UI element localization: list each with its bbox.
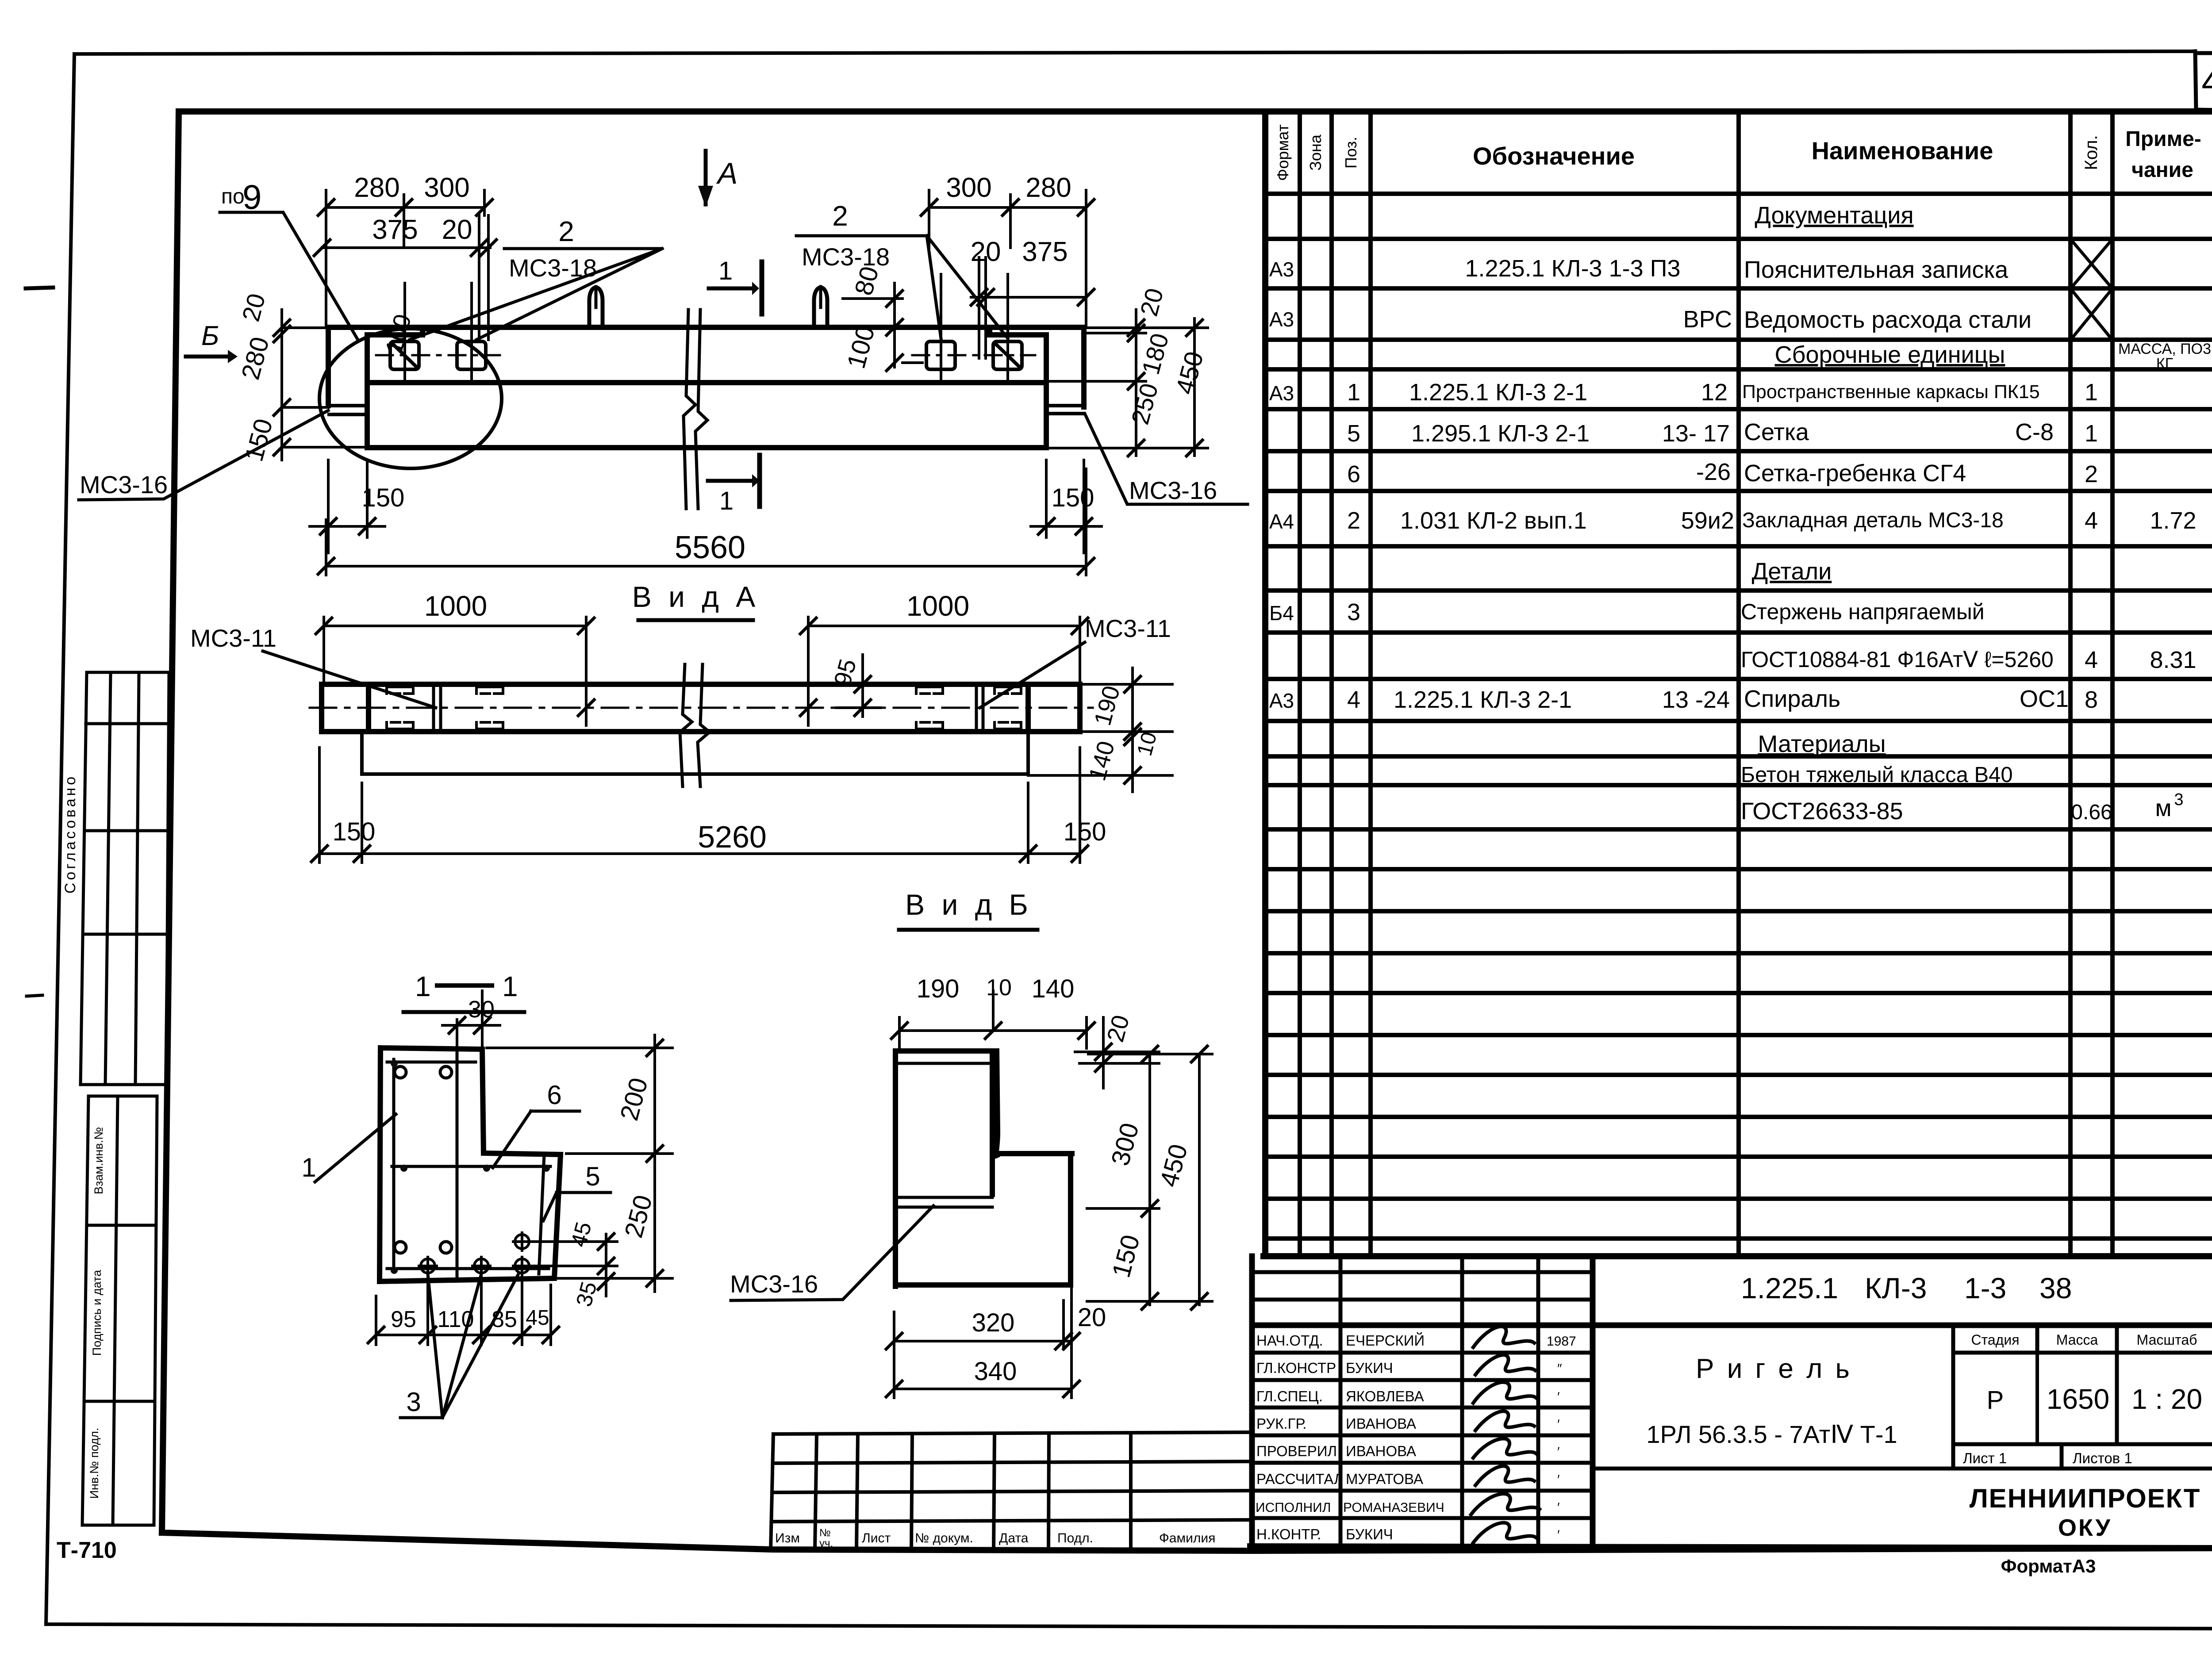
vertical dims 20 280 150 left view1 <box>236 291 367 464</box>
svg-text:13- 17: 13- 17 <box>1662 420 1730 447</box>
embedded plates МСЗ-18 view1 (squares) <box>390 341 1022 369</box>
dims 320 20 340 bottom end view <box>886 1194 1106 1398</box>
svg-text:ГОСТ10884-81 Ф16АтⅤ ℓ=5260: ГОСТ10884-81 Ф16АтⅤ ℓ=5260 <box>1741 647 2054 672</box>
svg-text:Пояснительная записка: Пояснительная записка <box>1744 257 2008 283</box>
svg-text:8.31: 8.31 <box>2150 647 2196 673</box>
svg-text:1.031 КЛ-2 вып.1: 1.031 КЛ-2 вып.1 <box>1400 507 1587 534</box>
svg-text:ГОСТ26633-85: ГОСТ26633-85 <box>1741 798 1903 824</box>
hidden plate tabs view2 <box>387 687 1021 729</box>
svg-text:375: 375 <box>372 215 418 245</box>
svg-text:5: 5 <box>585 1162 600 1191</box>
page number box 47 <box>2195 51 2212 111</box>
svg-text:Дата: Дата <box>999 1531 1029 1545</box>
svg-text:А3: А3 <box>1269 382 1294 405</box>
stirrup corner dots <box>391 1060 550 1274</box>
dim 5560 view1 <box>318 469 1094 575</box>
svg-text:ЛЕННИИПРОЕКТ: ЛЕННИИПРОЕКТ <box>1970 1484 2201 1513</box>
svg-text:′: ′ <box>1557 1445 1560 1459</box>
svg-text:Бетон тяжелый класса В40: Бетон тяжелый класса В40 <box>1741 763 2013 787</box>
section title 1-1 <box>403 970 524 1012</box>
svg-text:3: 3 <box>406 1387 421 1417</box>
svg-text:38: 38 <box>2039 1272 2072 1304</box>
svg-text:Масштаб: Масштаб <box>2137 1332 2197 1348</box>
beam outline view1 <box>328 327 1084 448</box>
beam outline view2 <box>322 684 1080 732</box>
section cut mark 1 top <box>709 257 762 314</box>
svg-text:КГ: КГ <box>2156 355 2173 372</box>
svg-text:4: 4 <box>2085 647 2098 673</box>
drawing frame <box>162 111 2212 1551</box>
svg-text:Н.КОНТР.: Н.КОНТР. <box>1256 1526 1321 1542</box>
svg-text:′: ′ <box>1557 1390 1560 1404</box>
title block name cells <box>1593 1325 2212 1469</box>
label 3 with fan leaders section <box>400 1274 518 1418</box>
plate centrelines view1 <box>376 354 1035 357</box>
svg-text:Подл.: Подл. <box>1057 1531 1093 1545</box>
svg-text:2: 2 <box>2085 461 2098 487</box>
end view outline <box>895 1051 1072 1286</box>
svg-text:ИВАНОВА: ИВАНОВА <box>1346 1415 1416 1432</box>
svg-text:чание: чание <box>2131 158 2193 182</box>
svg-text:′: ′ <box>1557 1417 1560 1432</box>
svg-text:Документация: Документация <box>1755 202 1913 229</box>
svg-text:Фамилия: Фамилия <box>1159 1531 1215 1545</box>
edge mark left lower <box>27 995 42 996</box>
svg-text:МС3-16: МС3-16 <box>730 1270 818 1298</box>
label МСЗ-16 right view1 <box>1085 414 1248 504</box>
label 6 with leader section <box>493 1080 580 1168</box>
svg-text:МС3-18: МС3-18 <box>509 254 597 282</box>
svg-text:1.225.1 КЛ-3 2-1: 1.225.1 КЛ-3 2-1 <box>1409 379 1587 406</box>
svg-text:Согласовано: Согласовано <box>62 774 79 894</box>
svg-text:1-3: 1-3 <box>1964 1272 2006 1304</box>
svg-text:6: 6 <box>547 1080 561 1110</box>
svg-text:Б: Б <box>201 321 219 351</box>
svg-text:1: 1 <box>719 487 733 515</box>
section cut mark 1 bottom <box>708 455 760 515</box>
svg-text:300: 300 <box>946 173 991 203</box>
svg-text:Лист 1: Лист 1 <box>1963 1450 2007 1466</box>
left margin strip table upper <box>81 672 169 1085</box>
centreline view2 <box>310 707 1093 709</box>
svg-text:Сетка-гребенка СГ4: Сетка-гребенка СГ4 <box>1744 460 1966 487</box>
svg-text:ВРС: ВРС <box>1683 306 1732 333</box>
svg-text:А: А <box>716 157 737 190</box>
break lines view1 <box>684 310 707 509</box>
lifting loop right <box>814 288 827 327</box>
title block signature rows text <box>1256 1332 1576 1542</box>
svg-text:НАЧ.ОТД.: НАЧ.ОТД. <box>1256 1332 1323 1349</box>
label МСЗ-11 left view2 <box>190 624 436 708</box>
left margin strip table lower <box>82 1096 157 1525</box>
svg-text:ГЛ.КОНСТР: ГЛ.КОНСТР <box>1256 1360 1336 1376</box>
svg-text:ПРОВЕРИЛ: ПРОВЕРИЛ <box>1256 1443 1337 1459</box>
label МСЗ-16 left view1 <box>79 410 328 500</box>
svg-text:5260: 5260 <box>698 820 767 854</box>
svg-text:Обозначение: Обозначение <box>1473 142 1635 170</box>
svg-text:1.72: 1.72 <box>2150 507 2196 534</box>
svg-text:Сборочные единицы: Сборочные единицы <box>1775 341 2005 368</box>
svg-text:30: 30 <box>468 996 495 1023</box>
svg-text:6: 6 <box>1347 461 1360 487</box>
svg-text:РОМАНАЗЕВИЧ: РОМАНАЗЕВИЧ <box>1343 1500 1444 1515</box>
label по 9 with leader <box>220 177 358 341</box>
dim 150 left end view1 <box>310 460 404 553</box>
svg-text:ЕЧЕРСКИЙ: ЕЧЕРСКИЙ <box>1346 1332 1425 1349</box>
svg-text:0.66: 0.66 <box>2071 801 2112 824</box>
ledge below view2 <box>362 733 1028 774</box>
svg-text:110: 110 <box>438 1307 474 1332</box>
svg-text:5: 5 <box>1347 420 1360 447</box>
svg-text:1: 1 <box>1347 379 1360 406</box>
svg-text:1650: 1650 <box>2047 1383 2109 1415</box>
label 5 with leader section <box>543 1162 611 1221</box>
svg-text:1: 1 <box>2085 420 2098 447</box>
svg-text:1.295.1 КЛ-3 2-1: 1.295.1 КЛ-3 2-1 <box>1411 420 1590 447</box>
svg-text:1: 1 <box>415 970 431 1002</box>
dims 300 450 150 end view <box>1087 1046 1212 1309</box>
svg-text:А3: А3 <box>1269 308 1294 331</box>
svg-text:КЛ-3: КЛ-3 <box>1865 1272 1927 1304</box>
svg-text:-26: -26 <box>1696 459 1731 485</box>
svg-text:3: 3 <box>2174 790 2183 809</box>
svg-text:РУК.ГР.: РУК.ГР. <box>1256 1415 1306 1432</box>
svg-text:1987: 1987 <box>1547 1334 1576 1349</box>
svg-text:300: 300 <box>424 173 469 203</box>
section web line <box>456 1049 459 1278</box>
svg-text:1: 1 <box>2085 379 2098 406</box>
X marks in Кол column <box>2072 241 2111 338</box>
svg-text:150: 150 <box>362 483 405 512</box>
svg-text:150: 150 <box>333 817 376 846</box>
svg-text:МС3-16: МС3-16 <box>80 471 168 499</box>
svg-text:уч.: уч. <box>819 1538 833 1549</box>
label МСЗ-16 end view <box>730 1206 933 1300</box>
table row texts <box>1269 202 2211 824</box>
svg-text:1: 1 <box>502 970 518 1002</box>
svg-text:№: № <box>819 1527 831 1539</box>
signatures squiggles <box>1471 1327 1540 1543</box>
svg-text:320: 320 <box>972 1308 1015 1337</box>
МСЗ-11 plate lines view2 <box>434 686 983 731</box>
svg-text:5560: 5560 <box>675 530 745 565</box>
svg-text:340: 340 <box>974 1357 1017 1386</box>
svg-text:ОС1: ОС1 <box>2020 686 2069 712</box>
svg-text:′: ′ <box>1557 1528 1560 1542</box>
svg-text:Закладная деталь МС3-18: Закладная деталь МС3-18 <box>1742 509 2004 532</box>
svg-text:Р: Р <box>1987 1386 2004 1415</box>
svg-text:Кол.: Кол. <box>2081 135 2101 170</box>
revision table labels <box>775 1527 1215 1549</box>
svg-text:85: 85 <box>492 1307 517 1332</box>
svg-text:по: по <box>221 185 245 208</box>
svg-text:БУКИЧ: БУКИЧ <box>1346 1360 1393 1376</box>
svg-text:м: м <box>2155 795 2171 821</box>
rebar circles section <box>395 1066 452 1253</box>
svg-text:2: 2 <box>558 215 574 247</box>
svg-text:МС3-16: МС3-16 <box>1129 476 1217 504</box>
svg-text:Сетка: Сетка <box>1744 419 1809 445</box>
dim 30 top of section <box>442 991 500 1049</box>
svg-text:150: 150 <box>1052 483 1094 512</box>
svg-text:′: ′ <box>1557 1500 1560 1515</box>
svg-text:Масса: Масса <box>2056 1332 2098 1348</box>
strand symbols section <box>419 1233 531 1275</box>
label 1 with leader section <box>301 1114 396 1182</box>
svg-text:В и д А: В и д А <box>632 580 760 613</box>
svg-text:47: 47 <box>2201 61 2212 102</box>
view title Вид А <box>632 580 760 620</box>
label 2 МСЗ-18 right with leaders <box>796 200 1008 338</box>
svg-text:′: ′ <box>1557 1473 1560 1487</box>
bottom revision table <box>771 1432 1252 1550</box>
svg-text:Изм: Изм <box>775 1531 800 1545</box>
svg-text:ОКУ: ОКУ <box>2058 1515 2112 1541</box>
svg-text:Листов 1: Листов 1 <box>2073 1450 2132 1466</box>
dim 150 5260 150 view2 <box>311 748 1106 863</box>
svg-text:ЯКОВЛЕВА: ЯКОВЛЕВА <box>1346 1388 1424 1404</box>
svg-text:Подпись и дата: Подпись и дата <box>90 1269 104 1356</box>
svg-text:95: 95 <box>391 1307 416 1332</box>
stirrup lines <box>387 1059 550 1274</box>
dim 280 300 left view1 <box>318 173 492 327</box>
svg-text:Наименование: Наименование <box>1812 137 1993 165</box>
svg-text:45: 45 <box>526 1306 549 1330</box>
svg-text:ИВАНОВА: ИВАНОВА <box>1346 1443 1416 1459</box>
svg-text:Детали: Детали <box>1752 558 1832 585</box>
svg-text:2: 2 <box>832 200 848 232</box>
svg-text:1.225.1: 1.225.1 <box>1741 1272 1838 1304</box>
svg-text:2: 2 <box>1347 507 1360 534</box>
svg-text:МС3-11: МС3-11 <box>1085 614 1171 642</box>
svg-text:Стержень напрягаемый: Стержень напрягаемый <box>1741 599 1985 624</box>
svg-text:МС3-18: МС3-18 <box>802 243 890 271</box>
dim 375 20 left view1 <box>314 215 496 340</box>
svg-text:Пространственные каркасы ПК15: Пространственные каркасы ПК15 <box>1742 381 2040 403</box>
svg-text:4: 4 <box>1347 686 1360 713</box>
dims 190 10 140 top end view <box>891 974 1094 1048</box>
svg-text:В и д Б: В и д Б <box>905 888 1033 921</box>
vertical dims 20 180 250 450 right view1 <box>1046 285 1209 456</box>
svg-text:Приме-: Приме- <box>2125 127 2201 151</box>
svg-text:280: 280 <box>1025 173 1071 203</box>
svg-text:Инв.№ подл.: Инв.№ подл. <box>88 1428 101 1499</box>
dims 200 250 right of section <box>487 1035 672 1292</box>
svg-text:8: 8 <box>2085 686 2098 713</box>
dim 1000 right view2 <box>800 590 1088 725</box>
dim 300 280 right view1 <box>921 173 1094 327</box>
svg-text:20: 20 <box>971 237 1001 267</box>
svg-text:20: 20 <box>442 215 472 245</box>
detail circle <box>319 329 502 468</box>
svg-text:1.225.1 КЛ-3 2-1: 1.225.1 КЛ-3 2-1 <box>1394 686 1572 713</box>
svg-text:А3: А3 <box>1269 258 1294 281</box>
dim 1000 left view2 <box>316 590 594 725</box>
svg-text:10: 10 <box>986 975 1012 1001</box>
section mark A top <box>698 151 737 207</box>
svg-text:БУКИЧ: БУКИЧ <box>1346 1526 1393 1542</box>
break lines view2 <box>680 664 710 786</box>
section outline <box>380 1048 561 1281</box>
dim 95 view2 <box>829 655 880 717</box>
table header texts <box>1274 124 2201 182</box>
dim 20 top right end view <box>1075 1012 1159 1088</box>
svg-text:1: 1 <box>718 257 733 285</box>
svg-text:375: 375 <box>1022 237 1068 267</box>
dims 190 10 140 right view2 <box>1028 668 1172 792</box>
title block signature table <box>1250 1256 2212 1548</box>
dim 80 100 near right loop <box>841 263 922 372</box>
svg-text:РАССЧИТАЛ: РАССЧИТАЛ <box>1256 1471 1344 1487</box>
svg-text:ГЛ.СПЕЦ.: ГЛ.СПЕЦ. <box>1256 1388 1323 1404</box>
dim 20 375 right view1 <box>971 237 1094 358</box>
lifting loop left <box>589 288 603 327</box>
svg-text:3: 3 <box>1347 599 1360 625</box>
svg-text:А3: А3 <box>1269 689 1294 712</box>
svg-text:Б4: Б4 <box>1269 602 1294 625</box>
view title Вид Б <box>899 888 1037 930</box>
end bearing plates МСЗ-16 view1 <box>328 406 1084 414</box>
dims 45 35 section <box>531 1219 617 1309</box>
label МСЗ-11 right view2 <box>980 614 1171 708</box>
edge mark left upper <box>26 288 53 288</box>
svg-text:13 -24: 13 -24 <box>1662 686 1730 713</box>
dim 150 right end view1 <box>1031 460 1102 553</box>
svg-text:Лист: Лист <box>862 1531 891 1545</box>
svg-text:Ведомость расхода стали: Ведомость расхода стали <box>1744 307 2032 333</box>
svg-text:1 : 20: 1 : 20 <box>2131 1383 2202 1415</box>
svg-text:ИСПОЛНИЛ: ИСПОЛНИЛ <box>1256 1500 1331 1515</box>
svg-text:″: ″ <box>1557 1361 1562 1376</box>
svg-text:Зона: Зона <box>1306 134 1325 171</box>
svg-text:59и2: 59и2 <box>1681 507 1734 534</box>
svg-text:9: 9 <box>242 177 261 216</box>
svg-text:МС3-11: МС3-11 <box>190 624 276 652</box>
svg-text:ФорматА3: ФорматА3 <box>2001 1556 2096 1576</box>
svg-text:150: 150 <box>1064 817 1106 846</box>
svg-text:280: 280 <box>354 173 399 203</box>
svg-text:МУРАТОВА: МУРАТОВА <box>1346 1471 1423 1487</box>
svg-text:1РЛ 56.3.5 - 7АтⅣ Т-1: 1РЛ 56.3.5 - 7АтⅣ Т-1 <box>1646 1420 1897 1448</box>
svg-text:12: 12 <box>1701 379 1728 406</box>
svg-text:Взам.инв.№: Взам.инв.№ <box>92 1127 105 1194</box>
svg-text:1: 1 <box>301 1153 316 1182</box>
svg-text:Т-710: Т-710 <box>57 1538 117 1563</box>
svg-text:Формат: Формат <box>1274 124 1292 181</box>
plate lines end view <box>897 1063 992 1207</box>
svg-text:С-8: С-8 <box>2015 419 2054 445</box>
svg-text:Спираль: Спираль <box>1744 686 1840 712</box>
svg-text:Материалы: Материалы <box>1758 731 1886 757</box>
label 2 МСЗ-18 left with leaders <box>410 215 662 340</box>
svg-text:1000: 1000 <box>424 590 487 622</box>
svg-text:1000: 1000 <box>906 590 969 622</box>
svg-text:140: 140 <box>1032 974 1075 1003</box>
svg-text:Поз.: Поз. <box>1342 137 1360 169</box>
svg-text:№ докум.: № докум. <box>915 1531 973 1545</box>
svg-text:А4: А4 <box>1269 510 1294 533</box>
view direction arrow Б <box>186 321 238 363</box>
svg-text:190: 190 <box>917 974 960 1003</box>
svg-text:1.225.1 КЛ-3 1-3 П3: 1.225.1 КЛ-3 1-3 П3 <box>1465 255 1681 282</box>
svg-text:4: 4 <box>2085 507 2098 534</box>
bottom dims 95 110 85 45 section <box>368 1276 559 1345</box>
svg-text:20: 20 <box>1078 1303 1106 1332</box>
svg-text:Стадия: Стадия <box>1971 1332 2019 1348</box>
svg-text:Р и г е л ь: Р и г е л ь <box>1696 1354 1852 1384</box>
specification table grid <box>1263 111 2212 1256</box>
